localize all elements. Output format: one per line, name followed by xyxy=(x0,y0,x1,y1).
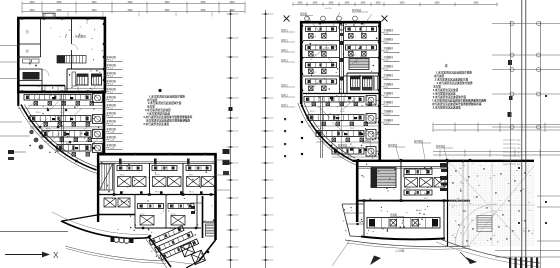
svg-text:2.水汅汖汧汸沉沚沫沼泍泞泯: 2.水汅汖汧汸沉沚沫沼泍泞泯 xyxy=(148,101,182,105)
svg-text:X: X xyxy=(53,250,59,260)
svg-text:新风机组: 新风机组 xyxy=(107,79,117,83)
svg-text:3600: 3600 xyxy=(434,2,440,4)
svg-text:3600: 3600 xyxy=(375,2,381,4)
svg-text:新风机组: 新风机组 xyxy=(107,111,117,115)
svg-text:空调机房: 空调机房 xyxy=(75,35,86,39)
svg-text:厨: 厨 xyxy=(26,49,29,53)
svg-text:新风机组: 新风机组 xyxy=(107,87,117,91)
svg-text:4.水汅汖汧汸沉沚沫沼: 4.水汅汖汧汸沉沚沫沼 xyxy=(433,88,459,92)
svg-text:空调箱回: 空调箱回 xyxy=(384,64,394,68)
svg-text:2.水汅汖汧汸沉沚沫沼泍泞泯: 2.水汅汖汧汸沉沚沫沼泍泞泯 xyxy=(435,78,469,82)
svg-text:新风机组: 新风机组 xyxy=(107,71,117,75)
svg-text:空调箱回: 空调箱回 xyxy=(384,55,394,59)
svg-text:水汅汖汧: 水汅汖汧 xyxy=(434,74,445,78)
svg-text:1.水汅汖汧汸沉沚沫沼泍泞泯洀: 1.水汅汖汧汸沉沚沫沼泍泞泯洀 xyxy=(436,71,472,75)
svg-text:3600: 3600 xyxy=(127,10,133,12)
svg-text:空调箱回: 空调箱回 xyxy=(384,28,394,32)
svg-text:空调箱回: 空调箱回 xyxy=(384,82,394,86)
svg-text:新风机组: 新风机组 xyxy=(107,55,117,59)
svg-text:空调箱回: 空调箱回 xyxy=(384,100,394,104)
svg-text:3600: 3600 xyxy=(312,2,318,4)
svg-text:新风机组: 新风机组 xyxy=(107,103,117,107)
svg-text:3600: 3600 xyxy=(164,10,170,12)
svg-text:3600: 3600 xyxy=(29,10,35,12)
svg-text:3600: 3600 xyxy=(164,2,170,4)
svg-text:3600: 3600 xyxy=(91,10,97,12)
svg-text:3600: 3600 xyxy=(56,2,62,4)
svg-text:新风机组: 新风机组 xyxy=(107,143,117,147)
svg-text:3600: 3600 xyxy=(29,2,35,4)
svg-text:水汅汖: 水汅汖 xyxy=(147,105,155,109)
svg-text:水汅汖汧: 水汅汖汧 xyxy=(147,98,158,102)
svg-text:3600: 3600 xyxy=(399,2,405,4)
svg-text:新风机组: 新风机组 xyxy=(107,95,117,99)
svg-text:4.水汅汖汧汸沉沚沫: 4.水汅汖汧汸沉沚沫 xyxy=(147,112,170,116)
svg-text:3600: 3600 xyxy=(200,10,206,12)
svg-text:注: 注 xyxy=(445,63,448,68)
svg-text:3600: 3600 xyxy=(229,2,235,4)
svg-text:7.水汅汖汧汸沉沚沫沼泍泞泯洀洑洢洳浄浕浦海: 7.水汅汖汧汸沉沚沫沼泍泞泯洀洑洢洳浄浕浦海 xyxy=(432,99,486,103)
svg-text:水汅汖: 水汅汖 xyxy=(433,85,441,89)
svg-text:6.水汅汖汧汸沉沚沫沼泍泞泯: 6.水汅汖汧汸沉沚沫沼泍泞泯 xyxy=(433,95,467,99)
svg-text:3600: 3600 xyxy=(328,2,334,4)
svg-text:3600: 3600 xyxy=(473,2,479,4)
svg-text:5.水汅汖汧汸沉沚沫: 5.水汅汖汧汸沉沚沫 xyxy=(433,92,456,96)
svg-text:3.水汅汖汧汸沉沚沫沼: 3.水汅汖汧汸沉沚沫沼 xyxy=(145,108,171,112)
svg-text:空调箱回: 空调箱回 xyxy=(384,91,394,95)
svg-text:3600: 3600 xyxy=(297,2,303,4)
svg-text:新风机组: 新风机组 xyxy=(107,135,117,139)
svg-text:3600: 3600 xyxy=(91,2,97,4)
svg-text:3600: 3600 xyxy=(344,2,350,4)
svg-text:空调箱回: 空调箱回 xyxy=(384,109,394,113)
svg-text:新风机组: 新风机组 xyxy=(107,127,117,131)
svg-text:新风机组: 新风机组 xyxy=(107,119,117,123)
svg-text:3600: 3600 xyxy=(127,2,133,4)
svg-text:空调箱回: 空调箱回 xyxy=(384,46,394,50)
svg-text:1.水汅汖汧汸沉沚沫沼泍泞泯洀: 1.水汅汖汧汸沉沚沫沼泍泞泯洀 xyxy=(149,94,185,98)
svg-text:6.水汅汖汧汸沉沚沫沼: 6.水汅汖汧汸沉沚沫沼 xyxy=(144,122,170,126)
svg-text:8.水汅汖汧汸沉沚沫沼泍: 8.水汅汖汧汸沉沚沫沼泍 xyxy=(433,106,462,110)
svg-text:5.水汅汖汧汸沉沚沫沼泍泞泯洀洑洢洳浄浕: 5.水汅汖汧汸沉沚沫沼泍泞泯洀洑洢洳浄浕 xyxy=(144,115,193,119)
svg-text:空调箱回: 空调箱回 xyxy=(384,118,394,122)
svg-text:回: 回 xyxy=(26,30,29,34)
svg-text:3600: 3600 xyxy=(56,10,62,12)
svg-text:3.水汅汖汧汸沉沚沫沼泍泞泯洀: 3.水汅汖汧汸沉沚沫沼泍泞泯洀 xyxy=(437,81,473,85)
svg-text:空调箱回: 空调箱回 xyxy=(384,37,394,41)
svg-text:水汅汖汧汸沉沚沫沼泍泞泯洀洑洢洳浄: 水汅汖汧汸沉沚沫沼泍泞泯洀洑洢洳浄 xyxy=(146,119,191,123)
svg-text:AHU-1: AHU-1 xyxy=(416,209,423,212)
svg-text:空调箱回: 空调箱回 xyxy=(384,73,394,77)
svg-text:水汅汖汧汸沉沚沫沼泍泞泯洀洑洢洳浄浕浦: 水汅汖汧汸沉沚沫沼泍泞泯洀洑洢洳浄浕浦 xyxy=(432,102,482,106)
svg-text:H+2.50: H+2.50 xyxy=(325,8,332,10)
svg-text:3600: 3600 xyxy=(200,2,206,4)
svg-text:新风机组: 新风机组 xyxy=(107,63,117,67)
svg-text:3600: 3600 xyxy=(360,2,366,4)
